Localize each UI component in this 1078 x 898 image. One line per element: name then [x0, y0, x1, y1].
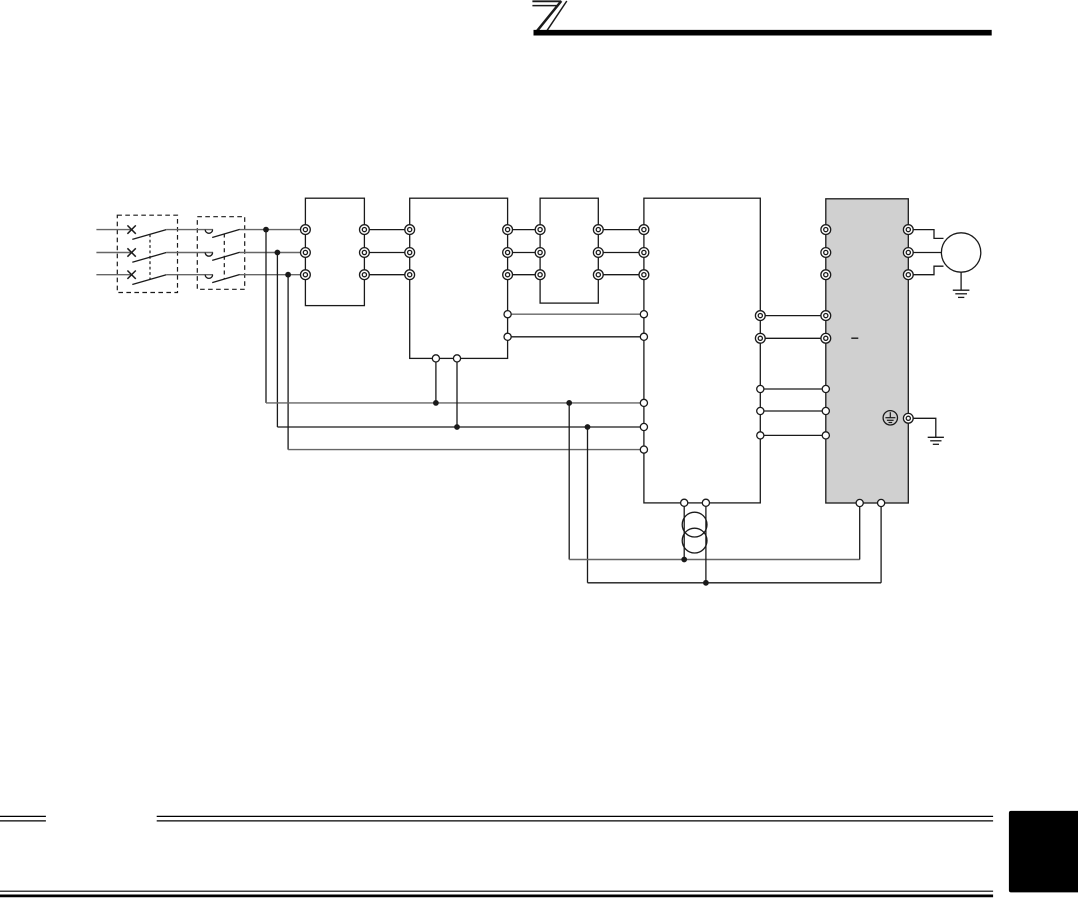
wire T L1 to NF1: [364, 274, 409, 276]
terminal inverter N: [821, 333, 831, 343]
terminal RG1 N: [755, 333, 765, 343]
terminal inverter right T: [903, 270, 913, 280]
terminal RG1 tap lower: [640, 333, 647, 340]
transformer T1 winding 2: [682, 528, 707, 553]
contactor MC1 pole T fixed contact: [205, 275, 212, 279]
terminal RG1 R0: [640, 399, 647, 406]
contactor MC1 mechanical link (dashed): [223, 234, 225, 280]
terminal NF1 left T: [405, 270, 415, 280]
terminal RG1 tap upper: [640, 311, 647, 318]
junction node bus S to lower run: [585, 424, 591, 430]
wire R NF2 to RG1: [598, 229, 644, 231]
motor ground lead: [960, 272, 962, 290]
terminal L1 left R: [301, 225, 311, 235]
wire T NF1 to NF2: [508, 274, 540, 276]
magnetic contactor MC1 dashed enclosure: [197, 217, 244, 290]
header chapter mark (stylized Z glyph): [532, 1, 566, 32]
terminal RG1 ctrl 3: [757, 432, 764, 439]
wire S NF2 to RG1: [598, 252, 644, 254]
terminal RG1 ctrl 1: [757, 385, 764, 392]
terminal NF1 right R: [503, 225, 513, 235]
earth ground symbol at inverter: [928, 437, 944, 444]
terminal inverter ctrl 2: [822, 407, 829, 414]
terminal RG1 ctrl 2: [757, 407, 764, 414]
bus wire R to RG1 R0: [266, 402, 644, 404]
wire R breaker to contactor: [166, 229, 213, 231]
wire inverter V to motor: [908, 252, 941, 254]
junction node R: [263, 227, 269, 233]
wire R L1 to NF1: [364, 229, 409, 231]
junction node S: [275, 250, 281, 256]
breaker CB1 pole T contact cross: [127, 271, 135, 279]
circuit breaker CB1 dashed enclosure: [117, 215, 177, 292]
wire drop to lower run A: [568, 403, 570, 560]
wire T NF2 to RG1: [598, 274, 644, 276]
terminal NF2 right T: [593, 270, 603, 280]
input reactor L1 box: [305, 198, 364, 305]
terminal L1 right S: [360, 248, 370, 258]
wire NF1 to RG1 lower tap: [508, 336, 644, 338]
terminal inverter right S: [903, 248, 913, 258]
terminal NF2 left T: [535, 270, 545, 280]
motor M1: [941, 233, 980, 272]
wire R contactor to reactor L1: [240, 229, 306, 231]
breaker CB1 pole R blade: [132, 230, 166, 240]
breaker CB1 pole S contact cross: [127, 248, 135, 256]
lower run wire B: [588, 582, 882, 584]
terminal L1 right T: [360, 270, 370, 280]
contactor MC1 pole S blade: [212, 252, 240, 260]
protective earth symbol inside inverter: [883, 411, 897, 425]
regenerative converter unit RG1 box: [644, 198, 760, 503]
terminal RG1 T0: [640, 446, 647, 453]
terminal NF2 left S: [535, 248, 545, 258]
wire RG1 to inverter control 3: [760, 434, 826, 436]
contactor MC1 pole R fixed contact: [205, 230, 212, 234]
breaker CB1 pole T blade: [132, 275, 166, 285]
terminal inverter ctrl 1: [822, 385, 829, 392]
inverter N bus label (minus): [851, 337, 858, 339]
terminal L1 left T: [301, 270, 311, 280]
wire junction T drop: [287, 275, 289, 450]
terminal NF1 right S: [503, 248, 513, 258]
terminal NF2 right R: [593, 225, 603, 235]
junction node wire A: [681, 557, 687, 563]
transformer T1 secondary lead: [705, 503, 707, 583]
terminal inverter right R: [903, 225, 913, 235]
wire drop to lower run B: [587, 427, 589, 583]
terminal RG1 left R: [639, 225, 649, 235]
terminal inverter left R: [821, 225, 831, 235]
terminal RG1 left T: [639, 270, 649, 280]
lower run wire B riser to inverter: [880, 503, 882, 583]
junction node on bus S: [454, 424, 460, 430]
wire RG1 P terminal to inverter P: [760, 315, 826, 317]
wire NF1 bottom tap 2 drop: [456, 358, 458, 427]
motor ground symbol: [953, 290, 970, 297]
junction node wire B: [703, 580, 709, 586]
terminal NF1 left R: [405, 225, 415, 235]
terminal RG1 P: [755, 311, 765, 321]
wire RG1 to inverter control 1: [760, 388, 826, 390]
wire R NF1 to NF2: [508, 229, 540, 231]
inverter INV box (shaded): [826, 199, 909, 503]
wire T contactor to reactor L1: [240, 274, 306, 276]
terminal RG1 bottom 2: [702, 499, 709, 506]
terminal L1 left S: [301, 248, 311, 258]
breaker CB1 mechanical link (dashed): [149, 234, 151, 279]
wire inverter W to motor: [908, 266, 943, 275]
wire S contactor to reactor L1: [240, 252, 306, 254]
wire S NF1 to NF2: [508, 252, 540, 254]
junction node bus R to lower run: [566, 400, 572, 406]
terminal RG1 S0: [640, 423, 647, 430]
terminal inverter P: [821, 311, 831, 321]
contactor MC1 pole R blade: [212, 229, 240, 237]
terminal NF1 right T: [503, 270, 513, 280]
contactor MC1 pole T blade: [212, 275, 240, 283]
noise filter NF1 box: [410, 198, 508, 358]
wire T breaker to contactor: [166, 274, 213, 276]
terminal inverter left S: [821, 248, 831, 258]
wire NF1 bottom tap 1 drop: [435, 358, 437, 403]
junction node T: [285, 272, 291, 278]
footer rule left segment: [0, 816, 46, 821]
terminal inverter bottom 1: [856, 499, 863, 506]
wire junction R drop: [265, 230, 267, 403]
page index tab: [1009, 811, 1078, 893]
wire S breaker to contactor: [166, 252, 213, 254]
terminal inverter left T: [821, 270, 831, 280]
lower run wire A: [569, 559, 860, 561]
supply line S inlet wire: [96, 252, 131, 254]
contactor MC1 pole S fixed contact: [205, 253, 212, 257]
header thick rule: [534, 30, 992, 36]
terminal NF1 tap lower: [504, 333, 511, 340]
terminal NF1 bottom 1: [432, 355, 439, 362]
supply line T inlet wire: [96, 274, 131, 276]
junction node on bus R: [433, 400, 439, 406]
terminal NF2 left R: [535, 225, 545, 235]
transformer T1 primary lead: [683, 503, 685, 560]
wire NF1 to RG1 upper tap: [508, 313, 644, 315]
terminal NF1 bottom 2: [453, 355, 460, 362]
bus wire T to RG1 T0: [288, 449, 644, 451]
wire RG1 N terminal to inverter N: [760, 337, 826, 339]
terminal NF2 right S: [593, 248, 603, 258]
wire junction S drop: [276, 253, 278, 428]
terminal inverter bottom 2: [878, 499, 885, 506]
noise filter NF2 box: [540, 198, 598, 303]
bus wire S to RG1 S0: [277, 426, 644, 428]
wire RG1 to inverter control 2: [760, 410, 826, 412]
breaker CB1 pole R contact cross: [127, 225, 135, 233]
terminal RG1 left S: [639, 248, 649, 258]
terminal NF1 tap upper: [504, 311, 511, 318]
lower run wire A riser to inverter: [859, 503, 861, 560]
terminal inverter ctrl 3: [822, 432, 829, 439]
footer rule right segment: [157, 816, 993, 821]
terminal inverter G: [903, 413, 913, 423]
transformer T1 winding 1: [682, 512, 707, 537]
terminal L1 right R: [360, 225, 370, 235]
terminal RG1 bottom 1: [681, 499, 688, 506]
wire inverter U to motor: [908, 230, 943, 239]
bottom page rules: [0, 891, 993, 896]
breaker CB1 pole S blade: [132, 253, 166, 263]
wire S L1 to NF1: [364, 252, 409, 254]
terminal NF1 left S: [405, 248, 415, 258]
wire inverter ground terminal to earth: [908, 418, 936, 437]
supply line R inlet wire: [96, 229, 131, 231]
